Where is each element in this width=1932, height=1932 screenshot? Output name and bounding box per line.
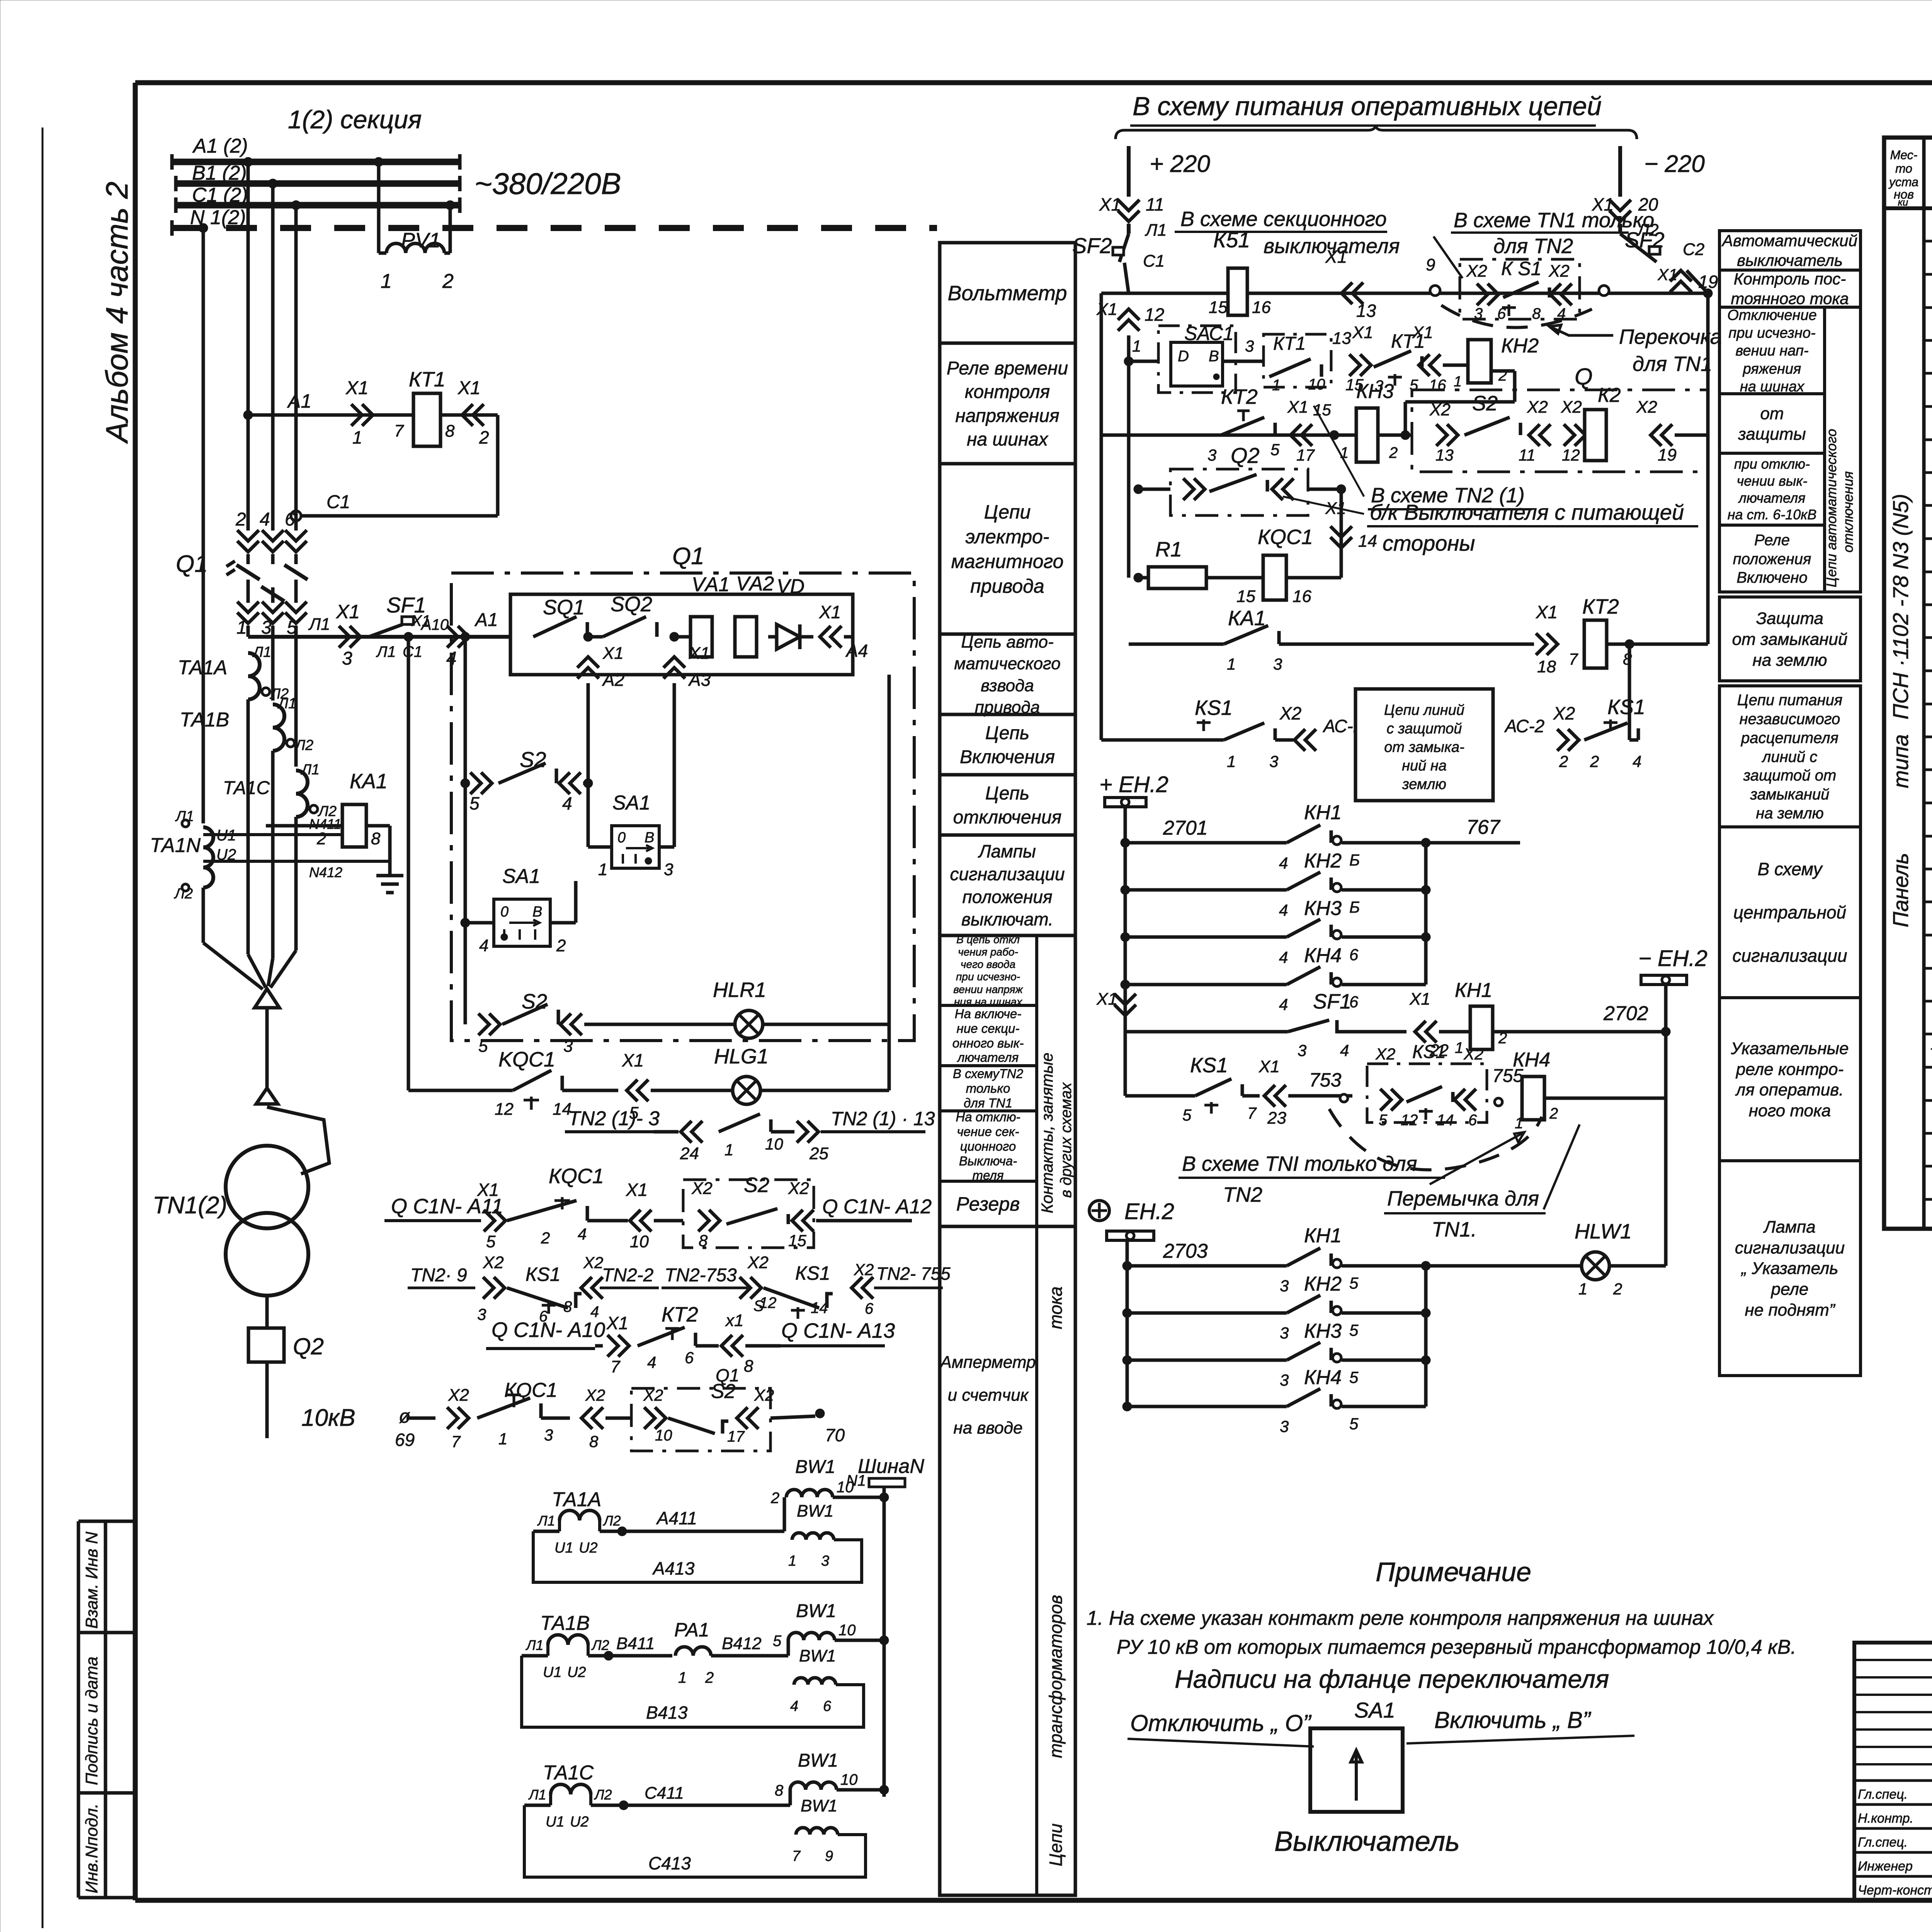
svg-text:от замыканий: от замыканий [1732,630,1848,649]
svg-text:SQ1: SQ1 [543,596,585,619]
svg-text:2: 2 [1559,752,1568,770]
svg-text:Отключить „ О”: Отключить „ О” [1130,1710,1312,1736]
svg-text:1: 1 [1340,444,1349,461]
svg-text:ТА1N: ТА1N [150,834,201,857]
svg-text:С411: С411 [645,1784,684,1803]
svg-text:BW1: BW1 [796,1601,836,1621]
table row R1 [1924,439,1932,441]
svg-text:Л1: Л1 [1145,221,1167,240]
svg-text:Q: Q [1575,364,1593,389]
svg-text:12: 12 [1401,1112,1418,1129]
svg-text:чего ввода: чего ввода [961,958,1015,970]
wire phase B feeder [271,184,275,531]
svg-text:для ТN2: для ТN2 [1493,235,1573,258]
svg-text:11: 11 [1519,446,1536,464]
svg-text:2: 2 [541,1229,550,1247]
svg-text:X2: X2 [754,1386,774,1404]
strip box Цепи электромагнитного привода [940,462,1075,466]
resistor R1 rung [1134,573,1143,582]
svg-text:трансформаторов: трансформаторов [1046,1595,1066,1758]
svg-text:SF1: SF1 [1313,990,1351,1013]
svg-text:X1: X1 [336,601,360,622]
svg-text:X2: X2 [1463,1045,1483,1063]
strip box Цепь отключения [940,773,1075,777]
svg-text:2: 2 [1389,444,1398,461]
svg-text:землю: землю [1402,776,1446,793]
svg-text:С1 (2): С1 (2) [192,184,248,206]
svg-text:В: В [532,904,542,920]
table row РА1 [1924,736,1932,738]
svg-text:положения: положения [962,887,1052,907]
table row Х1, Х2 [1924,604,1932,606]
svg-text:К2: К2 [1598,384,1621,406]
svg-text:матического: матического [954,654,1060,673]
svg-text:X1: X1 [345,378,369,398]
svg-text:Примечание: Примечание [1376,1557,1531,1587]
svg-text:реле контро-: реле контро- [1735,1060,1844,1079]
svg-text:Б: Б [1349,851,1360,869]
svg-text:С1: С1 [327,492,350,512]
svg-text:0: 0 [617,830,626,846]
dashed jumper arc [1441,305,1592,328]
table row КА1 [1924,339,1932,342]
svg-text:12: 12 [1562,446,1580,464]
svg-text:8: 8 [775,1782,784,1799]
svg-text:ного тока: ного тока [1749,1101,1831,1120]
svg-text:1: 1 [678,1669,687,1686]
svg-text:Перемычка для: Перемычка для [1387,1187,1539,1210]
svg-text:сигнализации: сигнализации [1735,1238,1845,1257]
svg-text:А4: А4 [845,641,868,661]
table row 28 [1924,1132,1932,1135]
svg-text:С2: С2 [1683,240,1704,259]
svg-text:сигнализации: сигнализации [1732,946,1847,966]
svg-text:КТ1: КТ1 [1273,333,1306,354]
svg-text:отключения: отключения [953,807,1062,828]
svg-text:X1: X1 [1259,1057,1280,1076]
svg-text:6: 6 [823,1698,832,1714]
svg-text:б/к Выключателя с питающей: б/к Выключателя с питающей [1370,500,1684,524]
svg-text:ТN2: ТN2 [1223,1183,1262,1206]
function rotated Цепи автоматического отключения [1825,307,1861,592]
svg-text:КТ2: КТ2 [662,1303,698,1326]
svg-text:13: 13 [1435,446,1454,464]
svg-text:ТN1.: ТN1. [1432,1218,1477,1241]
rung KA1 KT2 [1129,643,1224,646]
svg-text:10: 10 [840,1771,858,1788]
svg-text:при исчезно-: при исчезно- [956,971,1020,983]
table row 21 [1924,901,1932,903]
svg-text:на ст. 6-10кВ: на ст. 6-10кВ [1728,507,1816,522]
table row 15 [1924,703,1932,706]
svg-text:5: 5 [1379,1112,1388,1129]
svg-text:КS1: КS1 [1412,1042,1446,1062]
svg-text:3: 3 [1269,752,1278,770]
svg-text:2: 2 [1613,1280,1622,1298]
rail left outer [1100,293,1103,740]
svg-text:КН2: КН2 [1501,335,1539,357]
svg-text:3: 3 [477,1305,486,1323]
svg-text:2702: 2702 [1603,1002,1648,1025]
function box Отключение при исчезновении [1719,307,1825,394]
svg-text:X1: X1 [1412,323,1433,342]
svg-text:В схеме секционного: В схеме секционного [1180,207,1387,231]
svg-text:контроля: контроля [965,382,1050,402]
svg-text:линий с: линий с [1762,748,1817,765]
connector pins 1 3 5 [237,602,259,623]
svg-text:X2: X2 [1279,703,1301,723]
svg-text:3: 3 [1280,1371,1289,1389]
svg-text:BW1: BW1 [799,1646,836,1665]
svg-text:R1: R1 [1155,538,1182,561]
svg-text:BW1: BW1 [801,1796,837,1815]
svg-text:3: 3 [342,648,352,669]
svg-text:U2: U2 [579,1540,598,1556]
svg-text:8: 8 [563,1298,572,1315]
rail -220 [1618,146,1622,197]
svg-text:онного вык-: онного вык- [952,1036,1024,1050]
svg-text:„ Указатель: „ Указатель [1741,1259,1838,1278]
svg-text:767: 767 [1466,816,1501,838]
svg-text:независимого: независимого [1740,711,1840,728]
svg-text:7: 7 [611,1357,621,1376]
svg-text:S2: S2 [744,1173,769,1197]
svg-text:X1: X1 [477,1180,499,1200]
svg-text:ТА1А: ТА1А [178,656,227,679]
svg-text:Цепи линий: Цепи линий [1384,702,1464,718]
box ground fault feeder circuits [1355,689,1493,801]
svg-text:ки: ки [1898,196,1908,208]
svg-text:Включения: Включения [960,747,1055,767]
svg-text:В411: В411 [616,1634,655,1653]
svg-text:ТN2 (1) · 13: ТN2 (1) · 13 [831,1108,935,1129]
svg-text:VD: VD [777,575,804,598]
svg-text:В схему питания оперативных: В схему питания оперативных цепей [1133,92,1602,121]
svg-text:X2: X2 [854,1260,874,1279]
svg-text:X2: X2 [1527,398,1548,417]
svg-text:D: D [1178,348,1189,365]
svg-text:А1 (2): А1 (2) [192,135,248,157]
svg-text:7: 7 [394,422,404,440]
svg-text:1: 1 [1455,1039,1463,1056]
svg-text:ТА1А: ТА1А [552,1488,601,1511]
svg-text:Лампы: Лампы [978,841,1036,861]
table row КН2, КН3 [1924,636,1932,639]
contact KQC1 with lamp HLG1 [407,637,410,1090]
svg-text:Панель: Панель [1888,853,1913,927]
left paper edge line [42,128,44,1928]
svg-text:На включе-: На включе- [955,1007,1022,1021]
svg-text:ТN1(2): ТN1(2) [153,1192,227,1219]
svg-text:SQ2: SQ2 [611,593,652,616]
svg-text:HLR1: HLR1 [713,978,766,1002]
svg-text:1: 1 [381,270,392,293]
svg-text:тоянного тока: тоянного тока [1731,289,1849,308]
svg-text:14: 14 [1358,532,1377,551]
wire node rail upper [1424,843,1428,985]
svg-text:сигнализации: сигнализации [950,864,1065,884]
svg-text:7: 7 [1247,1104,1257,1122]
svg-text:15: 15 [1236,587,1255,606]
svg-text:В413: В413 [646,1702,688,1723]
svg-text:N1: N1 [846,1472,866,1489]
svg-text:SА1: SА1 [1354,1698,1395,1722]
svg-text:выключат.: выключат. [961,909,1053,929]
svg-text:− 220: − 220 [1644,151,1705,177]
loop B413 [522,1656,864,1727]
svg-text:5: 5 [1349,1415,1359,1433]
svg-text:3: 3 [1207,446,1216,464]
function box Цепи питания независимого [1719,686,1861,827]
svg-text:КQС1: КQС1 [504,1379,558,1401]
svg-text:5: 5 [1349,1368,1359,1386]
svg-text:чения рабо-: чения рабо- [958,946,1018,958]
svg-text:5: 5 [469,793,480,813]
svg-text:взвода: взвода [981,676,1034,695]
svg-text:Л1: Л1 [300,762,320,778]
strip box Цепь автоматического взвода [940,633,1075,636]
svg-text:X2: X2 [1466,262,1487,281]
svg-text:ля оператив.: ля оператив. [1735,1080,1844,1099]
svg-text:Контроль пос-: Контроль пос- [1734,270,1846,288]
bus B1(2) [176,180,460,187]
svg-text:В схеме ТN1 только: В схеме ТN1 только [1454,209,1654,232]
svg-text:КН1: КН1 [1455,979,1492,1002]
svg-text:4: 4 [1340,1041,1349,1060]
svg-text:КS1: КS1 [1607,696,1645,719]
svg-text:и счетчик: и счетчик [948,1386,1029,1405]
svg-text:16: 16 [1293,587,1311,606]
svg-text:4: 4 [578,1225,587,1243]
function box при отключении выключателя [1719,453,1825,525]
rung KS1 coil top [1101,292,1708,295]
svg-text:КН4: КН4 [1304,1366,1342,1389]
rung KT2 KH3 Q [1101,434,1412,437]
brace bracket [1116,124,1637,139]
wire neutral feeder [202,228,205,823]
jumper dashed box KS1 top [1460,259,1580,319]
svg-text:2703: 2703 [1163,1240,1208,1262]
svg-text:при отклю-: при отклю- [1734,456,1810,472]
svg-text:1: 1 [1227,655,1236,673]
table row КН1, КН4 [1924,670,1932,672]
svg-text:19: 19 [1658,446,1677,464]
relay KT1 voltage loop [243,410,253,420]
svg-text:X2: X2 [483,1253,504,1272]
svg-text:чение сек-: чение сек- [957,1124,1019,1139]
svg-text:3: 3 [1298,1041,1306,1060]
table row 29 [1924,1165,1932,1168]
table row 19 [1924,835,1932,838]
svg-text:3: 3 [664,860,673,879]
rung KH3 [1125,935,1287,939]
svg-text:Цепь: Цепь [985,783,1029,804]
svg-text:Выключатель: Выключатель [1274,1826,1460,1857]
svg-text:КН4: КН4 [1304,944,1342,967]
svg-text:5: 5 [1182,1106,1192,1124]
svg-text:S2: S2 [1472,392,1498,415]
svg-text:КН2: КН2 [1304,850,1342,872]
svg-text:5: 5 [1270,440,1280,459]
rung Q2 jumper [1134,485,1143,494]
svg-text:Л1: Л1 [277,696,296,712]
svg-text:К S1: К S1 [1501,258,1542,279]
svg-text:1: 1 [236,617,247,638]
svg-text:Включить „ В”: Включить „ В” [1434,1707,1592,1733]
wire node rail lower [1424,1266,1428,1406]
svg-text:Л2: Л2 [594,1787,612,1803]
svg-text:Резерв: Резерв [956,1193,1020,1215]
svg-text:7: 7 [451,1432,461,1451]
svg-text:Гл.спец.: Гл.спец. [1858,1787,1908,1802]
svg-text:X1: X1 [1287,398,1308,417]
svg-text:КТ2: КТ2 [1582,595,1619,618]
strip bottom section [940,1225,1075,1228]
arrester triangle [255,989,279,1008]
svg-text:Вольтметр: Вольтметр [948,282,1067,305]
function box Контроль постоянного тока [1719,270,1861,307]
svg-text:11: 11 [1146,194,1164,214]
svg-text:РА1: РА1 [674,1619,709,1641]
wire lamp rail [888,675,891,1090]
svg-text:типа: типа [1888,734,1913,788]
sheet border frame [135,80,1932,85]
svg-text:VА1: VА1 [692,573,730,596]
svg-text:только: только [966,1081,1010,1095]
svg-text:2: 2 [479,427,489,447]
function box Защита от замыканий [1719,597,1861,681]
svg-text:2: 2 [235,509,246,530]
svg-text:X1: X1 [1536,602,1558,622]
strip box Вольтметр [940,241,1075,245]
svg-text:S: S [753,1298,764,1315]
svg-text:от: от [1760,404,1784,423]
table frame [1884,138,1932,1229]
svg-text:10: 10 [765,1135,783,1153]
svg-text:8: 8 [1532,305,1541,322]
svg-text:КН3: КН3 [1304,897,1342,920]
svg-text:привода: привода [970,575,1044,597]
loop C413 [524,1805,866,1877]
svg-text:чении вык-: чении вык- [1737,473,1808,489]
svg-text:лючателя: лючателя [957,1050,1019,1065]
svg-text:КS1: КS1 [1190,1054,1228,1077]
svg-text:КН3: КН3 [1356,380,1394,403]
svg-text:U2: U2 [570,1814,589,1830]
svg-text:А1: А1 [287,390,311,412]
svg-text:7: 7 [792,1848,801,1864]
svg-text:4: 4 [1633,752,1641,770]
svg-text:X1: X1 [602,644,624,663]
svg-text:для ТN1: для ТN1 [964,1096,1012,1110]
svg-text:Л1: Л1 [308,615,330,634]
svg-text:4: 4 [562,793,572,813]
svg-text:КН4: КН4 [1513,1049,1550,1071]
svg-text:1: 1 [1272,377,1281,394]
svg-text:X1: X1 [1352,323,1373,342]
svg-text:В: В [645,830,654,846]
svg-text:Л2: Л2 [591,1637,609,1653]
wire main line to Q1 box [248,635,510,639]
svg-text:Л1: Л1 [537,1513,555,1529]
svg-text:ШинаN: ШинаN [858,1455,924,1478]
svg-text:центральной: центральной [1733,902,1846,922]
svg-text:Цепь: Цепь [985,723,1029,743]
svg-text:В схему: В схему [1757,859,1823,879]
svg-text:X2: X2 [747,1253,769,1272]
svg-text:4: 4 [590,1303,599,1320]
svg-text:X1: X1 [689,644,710,663]
svg-text:не поднят”: не поднят” [1745,1301,1836,1320]
svg-text:X1: X1 [622,1050,644,1070]
svg-text:13: 13 [1332,329,1351,348]
svg-text:X2: X2 [1553,703,1575,723]
wire phase A feeder [247,162,250,531]
svg-text:лючателя: лючателя [1738,490,1806,506]
svg-text:КН2: КН2 [1304,1273,1342,1295]
svg-text:6: 6 [1349,946,1359,964]
svg-text:ционного: ционного [960,1139,1016,1153]
rung KS1 ground-fault box [1101,738,1224,742]
table row 25 [1924,1033,1932,1036]
svg-text:На отклю-: На отклю- [956,1110,1020,1124]
svg-text:В412: В412 [722,1634,762,1653]
table row SА1 [1924,868,1932,871]
svg-text:6: 6 [1468,1112,1477,1129]
svg-text:6: 6 [865,1300,874,1317]
svg-text:4: 4 [1279,995,1288,1014]
svg-text:5: 5 [1349,1274,1359,1292]
loop A413 [533,1531,862,1582]
svg-text:Лампа: Лампа [1763,1218,1815,1236]
svg-text:X1: X1 [1096,300,1117,319]
svg-text:ЕН.2: ЕН.2 [1124,1199,1174,1224]
svg-text:ТА1В: ТА1В [180,709,229,731]
svg-text:ТN2 (1)- 3: ТN2 (1)- 3 [568,1107,660,1130]
svg-text:Цепи: Цепи [1046,1823,1066,1866]
svg-text:10кВ: 10кВ [301,1405,355,1431]
svg-text:X1: X1 [457,378,481,398]
svg-text:Н.контр.: Н.контр. [1858,1811,1913,1826]
wire SQ2 to VA1 [674,635,691,639]
svg-text:РУ 10 кВ от которых питае: РУ 10 кВ от которых питается резервный т… [1117,1636,1796,1658]
svg-text:SF2: SF2 [1072,233,1112,258]
table row 11 [1924,571,1932,573]
table row НLW1 [1924,934,1932,937]
svg-text:ТА1C: ТА1C [543,1762,594,1784]
svg-text:SА1: SА1 [502,865,540,888]
svg-text:электро-: электро- [965,526,1049,548]
svg-text:X2: X2 [1561,398,1582,417]
svg-text:4: 4 [479,936,488,955]
function box Реле положения Включено [1719,525,1825,592]
svg-text:10: 10 [655,1427,672,1444]
svg-text:753: 753 [1309,1069,1342,1091]
svg-text:3: 3 [1245,337,1254,355]
svg-text:1: 1 [788,1553,796,1569]
table row ТА1А·ТА1В·ТА1С [1924,1066,1932,1069]
svg-text:Л1: Л1 [528,1787,546,1803]
table row 5 [1924,372,1932,375]
svg-text:1: 1 [352,427,362,447]
voltmeter PV1 [377,162,381,253]
svg-text:3: 3 [563,1037,573,1056]
function box В схему центральной сигнализации [1719,827,1861,998]
wire phase C feeder [294,205,298,531]
svg-text:Л2: Л2 [603,1513,621,1529]
svg-text:КН1: КН1 [1304,1225,1342,1247]
svg-text:12: 12 [1145,304,1164,325]
